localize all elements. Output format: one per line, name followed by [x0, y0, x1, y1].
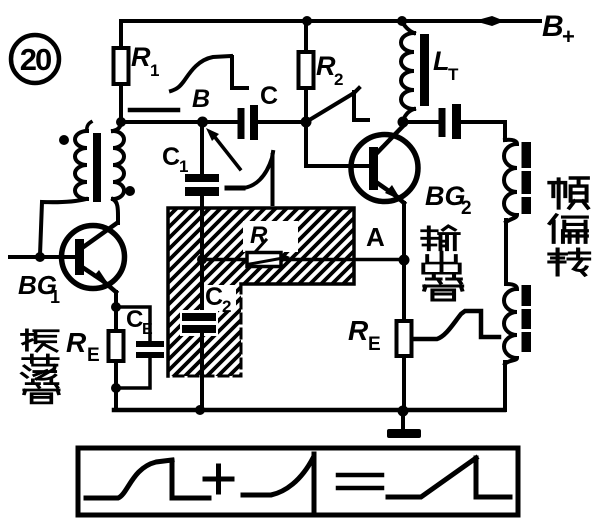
figure number badge 20	[11, 35, 59, 83]
wire BG1 base input	[10, 255, 75, 259]
svg-text:B: B	[192, 85, 210, 113]
svg-text:R: R	[316, 51, 336, 81]
capacitor C1	[162, 143, 219, 196]
waveform sum term 2	[243, 454, 314, 512]
wire top rail B+	[121, 17, 540, 25]
waveform equation box	[78, 448, 518, 515]
wire CE branch bottom	[116, 358, 150, 388]
label BG1	[18, 270, 60, 307]
wire R2 bottom lead	[304, 88, 308, 122]
svg-text:2: 2	[461, 198, 472, 219]
svg-text:B: B	[542, 10, 564, 43]
transformer T1 secondary winding	[75, 122, 91, 199]
junction BG2 collector node	[398, 117, 409, 128]
capacitor C2	[180, 283, 236, 336]
wire CE branch top	[116, 307, 150, 341]
core dashes lower	[522, 285, 532, 352]
wire node A row	[202, 258, 404, 262]
svg-text:C: C	[126, 306, 143, 333]
svg-text:R: R	[131, 42, 151, 72]
node A	[366, 222, 410, 266]
waveform sketch sawtooth at R2	[311, 88, 368, 120]
junction RE/CE bottom	[111, 383, 121, 393]
svg-text:R: R	[66, 327, 87, 358]
svg-text:C: C	[205, 283, 223, 311]
wire yoke middle	[504, 220, 508, 284]
plus sign	[205, 466, 232, 492]
wire C2 top lead	[200, 259, 204, 313]
waveform sketch sawtooth at B	[171, 56, 247, 91]
wire C1 to A row	[200, 196, 204, 259]
equals sign	[338, 475, 382, 488]
waveform sketch at RE	[415, 311, 499, 339]
wire BG2 base lead	[306, 122, 369, 166]
ground	[387, 429, 421, 438]
text frame deflection (zhen pian zhuan)	[549, 178, 589, 275]
inductor deflection yoke lower	[504, 284, 517, 364]
node B+ label	[542, 10, 575, 49]
wire R1 bottom lead	[119, 84, 123, 122]
transistor BG2	[351, 125, 418, 203]
wire emphasis dash under R1	[130, 108, 178, 113]
hatched timing region	[0, 150, 601, 400]
capacitor CE	[126, 306, 164, 358]
arrow pointing to node B	[206, 128, 240, 169]
wire bottom rail	[114, 408, 504, 413]
polarity dot primary	[125, 186, 135, 196]
junction C2 bottom rail	[195, 405, 205, 415]
transformer T1 core	[93, 133, 101, 202]
core dashes upper	[522, 142, 532, 214]
junction emitter/CE	[111, 302, 121, 312]
wire RE bottom to rail	[114, 361, 118, 410]
resistor R (variable)	[243, 221, 298, 267]
svg-text:+: +	[562, 24, 575, 49]
resistor RE (BG1 emitter)	[66, 327, 124, 366]
capacitor coupling	[439, 104, 462, 139]
inductor LT	[401, 33, 459, 109]
transformer T1 primary winding	[113, 122, 124, 223]
wire collector node to coupling cap	[403, 120, 438, 124]
svg-text:T: T	[448, 65, 459, 84]
resistor R1	[114, 42, 160, 84]
junction ground node	[398, 406, 409, 417]
svg-text:R: R	[348, 315, 369, 346]
wire BG2 emitter line	[402, 203, 406, 321]
text oscillator tube (zhen dang guan)	[22, 330, 59, 403]
wire BG1 emitter down	[114, 292, 118, 331]
svg-text:1: 1	[150, 61, 159, 80]
wire R1 top lead	[119, 21, 123, 48]
wire coupling cap to yoke	[461, 122, 505, 140]
waveform sketch exponential at C1	[227, 152, 273, 204]
wire C2 bottom lead	[200, 333, 204, 410]
wire yoke bottom lead	[503, 362, 507, 410]
waveform result sawtooth	[388, 458, 510, 497]
polarity dot secondary	[59, 135, 69, 145]
junction base/secondary	[35, 252, 45, 262]
wire LT bottom lead	[403, 109, 414, 122]
junction R2 bottom	[301, 117, 312, 128]
svg-text:E: E	[142, 321, 153, 338]
svg-text:2: 2	[222, 297, 231, 316]
svg-text:BG: BG	[425, 181, 466, 211]
wire LT top lead	[402, 21, 414, 33]
resistor R2	[299, 51, 344, 89]
svg-text:C: C	[260, 82, 278, 110]
svg-text:A: A	[366, 222, 385, 252]
label BG2	[425, 181, 472, 219]
wire secondary to BG1 base	[40, 199, 86, 255]
inductor deflection yoke upper	[504, 140, 517, 222]
junction C2 top / A row	[197, 255, 207, 265]
svg-text:C: C	[162, 143, 180, 171]
wire R2 top lead	[304, 21, 308, 52]
svg-text:1: 1	[50, 287, 60, 307]
svg-text:E: E	[368, 334, 381, 355]
wire RE bottom lead	[402, 356, 406, 410]
capacitor C	[238, 82, 279, 140]
text output tube (shu chu guan)	[422, 226, 462, 300]
svg-text:20: 20	[20, 42, 51, 77]
svg-text:E: E	[87, 345, 100, 366]
svg-text:2: 2	[334, 70, 343, 89]
wire node B down to C1	[200, 122, 204, 174]
junction R2 top	[302, 16, 312, 26]
junction LT top	[397, 16, 407, 26]
wire C to R2 node	[258, 120, 306, 124]
junction R1/transformer	[116, 117, 126, 127]
wire ground stub	[401, 411, 405, 429]
resistor RE (BG2 emitter)	[348, 315, 412, 356]
svg-text:R: R	[250, 222, 268, 249]
node B	[192, 85, 210, 128]
wire node row y=122	[121, 120, 238, 124]
transistor BG1	[62, 223, 125, 292]
svg-text:1: 1	[179, 157, 188, 176]
waveform sum term 1	[86, 460, 209, 498]
